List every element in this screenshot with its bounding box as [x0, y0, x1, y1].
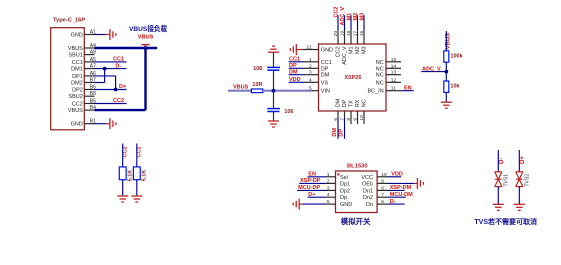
IC U1 XSP26: [319, 44, 387, 111]
svg-text:DP: DP: [339, 129, 345, 137]
junction VIN: [272, 89, 276, 93]
ground (divider): [441, 102, 452, 108]
pin B1 (GND) of J1: [71, 119, 97, 128]
svg-text:18: 18: [346, 31, 352, 37]
svg-text:16: 16: [359, 31, 365, 37]
svg-text:M2: M2: [353, 13, 359, 21]
svg-text:DP: DP: [342, 99, 348, 107]
wire CC1 (A5): [95, 61, 127, 63]
svg-text:VDD: VDD: [289, 77, 301, 83]
svg-text:A8: A8: [90, 50, 96, 56]
svg-text:DM: DM: [321, 73, 330, 79]
resistor 5.1K (CC1 pulldown): [133, 167, 147, 181]
pin 15 (NC) of U1 (right): [376, 57, 401, 66]
svg-text:DP2: DP2: [72, 88, 83, 94]
wire D- from U2: [388, 203, 405, 205]
svg-text:D-: D-: [115, 63, 121, 69]
TVS diode TVS1: [495, 172, 510, 187]
svg-text:XSP-DM: XSP-DM: [390, 185, 412, 191]
svg-text:DP: DP: [289, 63, 297, 69]
wire CC1 to resistor: [136, 144, 138, 167]
svg-text:5.1K: 5.1K: [127, 170, 133, 182]
svg-text:7: 7: [381, 192, 384, 198]
svg-text:CC1: CC1: [289, 57, 300, 63]
svg-text:D+: D+: [520, 156, 526, 164]
pin 7 (Dn2) of U2: [363, 192, 388, 201]
wire 10R to U1 VIN: [263, 90, 312, 92]
svg-text:MCU-DM: MCU-DM: [390, 192, 413, 198]
svg-text:SBU2: SBU2: [68, 94, 82, 100]
svg-text:9: 9: [381, 178, 384, 184]
pin 2 (Dp1) of U2: [326, 178, 351, 187]
svg-text:2: 2: [327, 178, 330, 184]
wire VBUS to 10R: [228, 90, 251, 92]
svg-text:XSP-DP: XSP-DP: [300, 178, 321, 184]
svg-text:10R: 10R: [252, 82, 262, 88]
svg-text:VBUS: VBUS: [138, 35, 154, 41]
svg-text:17: 17: [352, 31, 358, 37]
ground (U2 pin9): [414, 178, 423, 189]
wire CC2 to resistor: [122, 144, 124, 167]
svg-text:D+: D+: [308, 192, 315, 198]
svg-text:M1: M1: [349, 46, 355, 54]
svg-text:SBU1: SBU1: [68, 53, 82, 59]
ground (bottom cap): [268, 121, 279, 127]
svg-text:TVS2: TVS2: [524, 174, 530, 187]
svg-text:1: 1: [309, 57, 312, 63]
svg-text:ADC_V: ADC_V: [422, 66, 441, 72]
ground (top cap): [268, 46, 279, 52]
svg-text:EN: EN: [404, 85, 412, 91]
svg-text:M3: M3: [362, 46, 368, 54]
wire VBUS B4: [95, 109, 146, 111]
svg-text:ADC_V: ADC_V: [340, 7, 346, 26]
svg-text:DM2: DM2: [71, 81, 83, 87]
svg-text:8: 8: [346, 118, 352, 121]
resistor 10R: [251, 82, 262, 92]
pin 4 (VS) of U1: [304, 77, 329, 86]
svg-text:CC1: CC1: [113, 57, 124, 63]
pin A1 (GND) of J1: [71, 30, 97, 39]
wire D+ to TVS: [518, 150, 520, 172]
svg-text:VBUS: VBUS: [68, 108, 83, 114]
svg-text:DM: DM: [332, 128, 338, 137]
pin B8 (SBU2) of J1: [68, 91, 96, 100]
svg-text:6: 6: [333, 118, 339, 121]
svg-text:B8: B8: [90, 91, 96, 97]
capacitor 106 (upper): [253, 66, 280, 72]
svg-text:CC2: CC2: [113, 98, 124, 104]
svg-text:DM: DM: [289, 70, 298, 76]
wire ground to C 106: [273, 52, 275, 67]
svg-text:M2: M2: [355, 46, 361, 54]
pin A8 (SBU1) of J1: [68, 50, 96, 59]
junction VBUS: [143, 46, 147, 50]
svg-text:D-: D-: [390, 199, 396, 205]
ground (CC1 pulldown): [131, 196, 142, 202]
resistor 5.1K (CC2 pulldown): [119, 167, 133, 181]
svg-text:VIN: VIN: [321, 89, 330, 95]
wire D+ to U2: [308, 196, 326, 198]
pin 2 (DP) of U1: [304, 63, 329, 72]
pin 11 (BC_IN) of U1 (right): [367, 86, 401, 95]
wire VDD to U1: [289, 81, 304, 83]
svg-text:TX: TX: [349, 100, 355, 107]
svg-text:3: 3: [327, 185, 330, 191]
wire D- to TVS: [497, 150, 499, 172]
svg-text:VBUS: VBUS: [68, 46, 83, 52]
svg-text:TVS1: TVS1: [503, 174, 509, 187]
TVS diode TVS2: [516, 172, 531, 187]
svg-text:VDD: VDD: [391, 172, 403, 178]
svg-text:13: 13: [391, 70, 397, 76]
wire U2 GND pin 5: [302, 203, 325, 205]
ground (TVS TVS2): [514, 204, 525, 210]
svg-text:DM: DM: [336, 98, 342, 107]
svg-text:5.1K: 5.1K: [142, 170, 148, 182]
svg-text:5: 5: [327, 199, 330, 205]
svg-text:20: 20: [333, 31, 339, 37]
IC U2 BL1530: [336, 163, 378, 212]
pin 17 (M2) of U1 (top): [352, 15, 361, 54]
svg-text:GND: GND: [71, 33, 83, 39]
pin 8 (TX) of U1 (bottom): [346, 100, 355, 124]
pin B6 (DP2) of J1: [72, 85, 96, 94]
pin 14 (NC) of U1 (right): [376, 63, 401, 72]
pin 3 (DM) of U1: [304, 70, 330, 79]
pin 10 (VCC) of U2: [361, 172, 387, 181]
pin 4 (Dp) of U2: [326, 192, 348, 201]
svg-text:21: 21: [306, 44, 312, 50]
pin B4 (VBUS) of J1: [68, 105, 96, 114]
svg-text:NC: NC: [376, 60, 384, 66]
svg-text:OEb: OEb: [362, 181, 373, 187]
svg-text:VBUS接负载: VBUS接负载: [129, 24, 168, 33]
svg-text:GND: GND: [321, 48, 333, 54]
wire U2 pin9 to ground: [388, 182, 415, 184]
pin 5 (GND) of U2: [326, 199, 353, 208]
svg-text:8: 8: [381, 185, 384, 191]
svg-text:TVS若不需要可取消: TVS若不需要可取消: [474, 217, 537, 226]
svg-text:模拟开关: 模拟开关: [341, 217, 371, 226]
svg-text:CC2: CC2: [123, 146, 129, 157]
svg-text:1: 1: [327, 172, 330, 178]
svg-text:NC: NC: [362, 99, 368, 107]
svg-text:M1: M1: [346, 13, 352, 21]
svg-text:6: 6: [381, 199, 384, 205]
svg-text:CC2: CC2: [333, 6, 339, 17]
wire DP1 (A6): [95, 75, 116, 77]
wire VBUS to 100k: [445, 31, 447, 51]
pin 19 (ADC_V) of U1 (top): [339, 15, 348, 65]
ground (CC2 pulldown): [117, 196, 128, 202]
svg-text:10: 10: [359, 115, 365, 121]
wire MCU-DM from U2: [388, 196, 406, 198]
svg-text:Dp1: Dp1: [340, 181, 350, 187]
svg-text:CC2: CC2: [336, 46, 342, 57]
wire XSP-DP to U2: [299, 182, 325, 184]
wire B1 to ground: [95, 123, 106, 125]
wire DP1-DP2 vertical: [115, 76, 117, 90]
wire 10k to ground: [445, 92, 447, 102]
svg-text:VS: VS: [321, 80, 329, 86]
pin 6 (DM) of U1 (bottom): [333, 98, 342, 138]
wire DP to U1: [289, 67, 304, 69]
svg-text:D-: D-: [499, 158, 505, 164]
wire resistor to ground: [136, 180, 138, 196]
wire 100k to 10k: [445, 62, 447, 81]
svg-text:Dp2: Dp2: [340, 188, 350, 194]
svg-text:CC1: CC1: [72, 60, 83, 66]
svg-text:GND: GND: [340, 202, 352, 208]
svg-text:19: 19: [339, 31, 345, 37]
wire D+ (B6): [95, 89, 127, 91]
svg-text:NC: NC: [376, 66, 384, 72]
wire XSP-DM from U2: [388, 189, 405, 191]
pin 1 (CC1) of U1: [304, 57, 332, 66]
pin A5 (CC1) of J1: [72, 57, 96, 66]
svg-text:BC_IN: BC_IN: [367, 89, 383, 95]
pin A6 (DP1) of J1: [72, 71, 96, 80]
svg-text:EN: EN: [308, 172, 316, 178]
wire VBUS vertical bus: [144, 48, 146, 110]
wire MCU-DP to U2: [297, 189, 325, 191]
svg-text:DP: DP: [321, 66, 329, 72]
svg-text:15: 15: [391, 57, 397, 63]
wire VBUS A4: [95, 47, 158, 49]
pin 13 (NC) of U1 (right): [376, 70, 401, 79]
svg-text:14: 14: [391, 63, 397, 69]
connector J1 Type-C_16P: [51, 18, 86, 130]
svg-text:Dp: Dp: [340, 195, 347, 201]
svg-text:11: 11: [391, 86, 396, 92]
svg-text:NC: NC: [376, 73, 384, 79]
svg-text:12: 12: [391, 77, 397, 83]
ground (TVS TVS1): [493, 204, 504, 210]
junction DP: [114, 88, 118, 92]
wire CC2 (B5): [95, 103, 127, 105]
wire EN to U2: [308, 176, 326, 178]
svg-text:100k: 100k: [450, 53, 463, 59]
svg-text:XSP26: XSP26: [344, 75, 361, 81]
svg-text:GND: GND: [71, 122, 83, 128]
pin 3 (Dp2) of U2: [326, 185, 351, 194]
ground (U2 pin5): [293, 199, 302, 210]
svg-text:CC2: CC2: [72, 102, 83, 108]
svg-text:7: 7: [339, 118, 345, 121]
resistor 100k: [444, 51, 464, 62]
svg-text:Type-C_16P: Type-C_16P: [53, 18, 85, 24]
ground (U1 GND): [290, 44, 302, 55]
junction DM1/DM2: [103, 67, 107, 71]
svg-text:NC: NC: [376, 80, 384, 86]
svg-text:106: 106: [284, 109, 293, 115]
resistor 10k: [444, 81, 461, 92]
pin 21 (GND) of U1: [303, 44, 334, 53]
svg-text:3: 3: [309, 70, 312, 76]
svg-text:MCU-DP: MCU-DP: [298, 185, 320, 191]
svg-text:CC1: CC1: [321, 60, 332, 66]
pin 12 (NC) of U1 (right): [376, 77, 401, 86]
svg-text:RX: RX: [355, 99, 361, 107]
svg-text:M3: M3: [359, 13, 365, 21]
wire DM1-DM2 vertical: [104, 69, 106, 83]
ground (Type-C A1): [106, 29, 116, 40]
svg-text:DM1: DM1: [71, 67, 83, 73]
wire VDD to U2 pin10: [388, 176, 402, 178]
svg-text:2: 2: [309, 63, 312, 69]
svg-text:Dn2: Dn2: [363, 195, 373, 201]
svg-text:BL1530: BL1530: [347, 163, 368, 169]
power port VBUS: [138, 35, 154, 49]
svg-text:106: 106: [253, 66, 262, 72]
wire A1 to ground: [95, 34, 106, 36]
pin 6 (Dn) of U2: [366, 199, 388, 208]
pin 16 (M3) of U1 (top): [359, 15, 368, 54]
pin 10 (NC) of U1 (bottom): [359, 99, 368, 124]
wire C to ground: [273, 112, 275, 122]
wire CC1 to U1: [289, 61, 304, 63]
wire DM to U1: [289, 74, 304, 76]
svg-text:Dn1: Dn1: [363, 188, 373, 194]
wire TVS to ground: [497, 187, 499, 205]
pin A4 (VBUS) of J1: [68, 43, 96, 52]
svg-text:Sel: Sel: [340, 175, 348, 181]
junction ADC_V: [444, 70, 448, 74]
svg-text:10: 10: [381, 172, 387, 178]
pin 18 (M1) of U1 (top): [346, 15, 355, 54]
svg-text:VCC: VCC: [361, 175, 373, 181]
svg-text:4: 4: [327, 192, 330, 198]
pin 1 (Sel) of U2: [326, 172, 348, 181]
wire resistor to ground: [122, 180, 124, 196]
svg-text:9: 9: [352, 118, 358, 121]
wire D- (A7): [95, 68, 127, 70]
wire ADC_V: [421, 71, 446, 73]
pin B5 (CC2) of J1: [72, 99, 96, 108]
svg-text:VBUS: VBUS: [233, 84, 249, 90]
svg-text:10k: 10k: [450, 84, 460, 90]
wire TVS to ground: [518, 187, 520, 205]
capacitor 106 (lower): [267, 109, 293, 115]
pin B7 (DM2) of J1: [71, 78, 96, 87]
svg-text:ADC_V: ADC_V: [342, 46, 348, 65]
wire C to VIN junction: [273, 70, 275, 108]
pin 8 (Dn1) of U2: [363, 185, 388, 194]
ground (Type-C B1): [106, 118, 116, 129]
wire EN from U1 pin 11: [401, 90, 414, 92]
pin 20 (CC2) of U1 (top): [333, 15, 342, 57]
svg-text:DP1: DP1: [72, 74, 83, 80]
pin 9 (RX) of U1 (bottom): [352, 99, 361, 124]
svg-text:Dn: Dn: [366, 202, 373, 208]
svg-text:D+: D+: [119, 84, 126, 90]
pin 9 (OEb) of U2: [362, 178, 388, 187]
svg-text:CC1: CC1: [137, 146, 143, 157]
pin A7 (DM1) of J1: [71, 64, 96, 73]
pin 5 (VIN) of U1: [304, 86, 330, 95]
wire DM2 (B7): [95, 82, 105, 84]
pin 7 (DP) of U1 (bottom): [339, 99, 348, 138]
svg-text:4: 4: [309, 77, 312, 83]
